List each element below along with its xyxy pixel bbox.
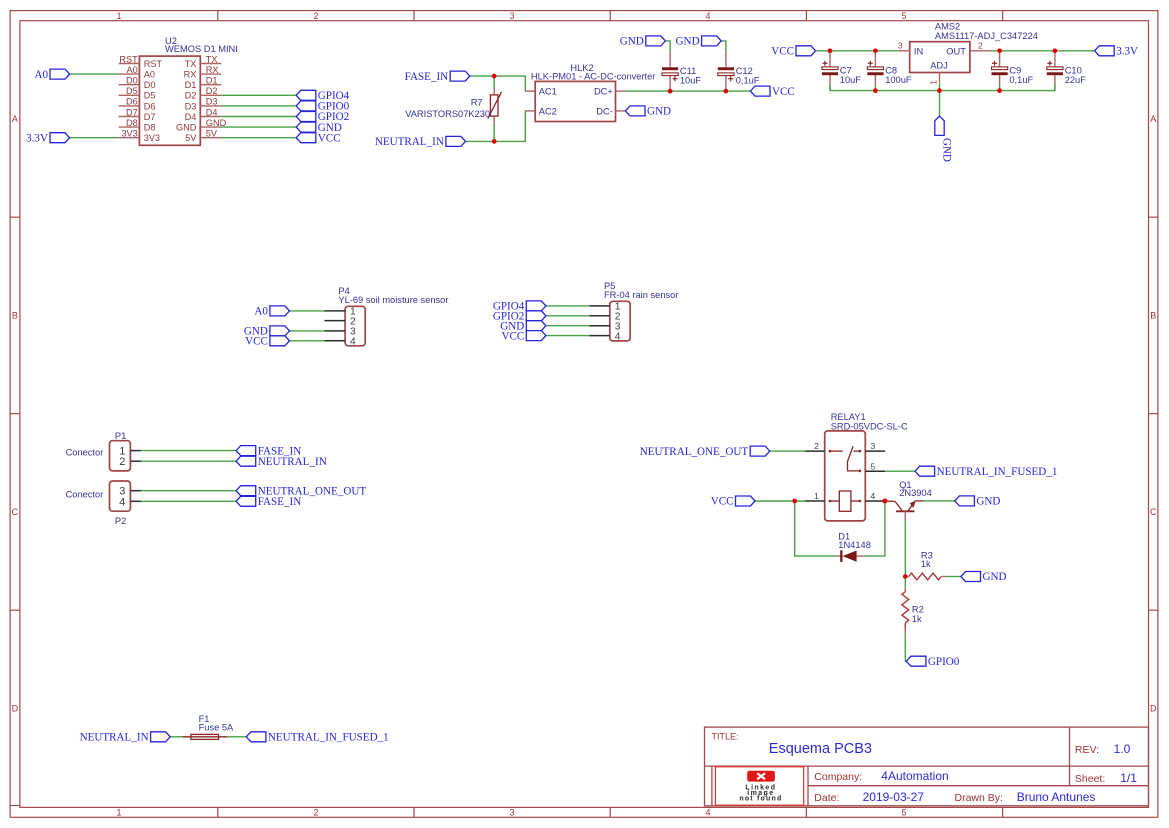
node junction ADJ/bus [937, 88, 942, 93]
P4 pin 4 [324, 337, 356, 348]
wire Q1 base down [904, 521, 906, 577]
svg-text:VARISTORS07K230: VARISTORS07K230 [405, 109, 490, 119]
svg-text:A: A [1150, 114, 1156, 124]
wire ADJ to bus [939, 82, 941, 90]
svg-text:TX: TX [206, 54, 218, 64]
net label NEUTRAL_ONE_OUT (relay) [640, 446, 770, 458]
svg-text:0,1uF: 0,1uF [736, 76, 760, 86]
node junction C8 bottom [873, 88, 878, 93]
svg-text:VCC: VCC [711, 496, 734, 508]
wire R3 to GND [946, 576, 961, 578]
RELAY1 coil [829, 491, 862, 511]
svg-text:1.0: 1.0 [1114, 742, 1131, 756]
net label VCC (AMS input) [771, 46, 815, 58]
C7 pin stubs [829, 51, 831, 91]
svg-text:2: 2 [119, 456, 125, 468]
svg-text:10uF: 10uF [840, 75, 862, 85]
svg-text:DC+: DC+ [594, 87, 613, 97]
svg-text:D1: D1 [185, 80, 197, 90]
svg-text:4: 4 [705, 11, 710, 21]
node junction C11/DC+ [668, 89, 673, 94]
svg-text:5V: 5V [185, 133, 197, 143]
svg-text:AMS2: AMS2 [935, 21, 960, 31]
svg-text:C: C [1150, 507, 1157, 517]
wire P1.2 to NEUTRAL_IN [141, 460, 236, 462]
svg-text:Bruno Antunes: Bruno Antunes [1017, 790, 1096, 804]
wire U2 to GPIO2 [221, 116, 296, 118]
net label GND (AMS, rotated) [935, 116, 953, 162]
svg-text:Esquema PCB3: Esquema PCB3 [769, 741, 872, 757]
svg-text:OUT: OUT [946, 46, 966, 56]
svg-text:GND: GND [176, 123, 197, 133]
wire Q1 emitter to GND [924, 500, 955, 502]
net label GND (Q1 emitter) [955, 496, 1001, 508]
net label VCC (P5) [501, 330, 545, 342]
wire U2 to GND [221, 126, 296, 128]
svg-text:AC1: AC1 [539, 87, 557, 97]
frame column numbers bottom [116, 808, 906, 818]
svg-text:2019-03-27: 2019-03-27 [863, 790, 925, 804]
frame column numbers top [116, 11, 906, 21]
U2 pin TX (right) [185, 54, 221, 69]
node junction base/R3 [903, 574, 908, 579]
U2 pin 5V (right) [185, 129, 221, 144]
svg-text:NEUTRAL_ONE_OUT: NEUTRAL_ONE_OUT [640, 446, 749, 458]
svg-text:NEUTRAL_IN: NEUTRAL_IN [258, 456, 327, 468]
node junction C9 bottom [997, 88, 1002, 93]
net label VCC (U2 right) [296, 132, 340, 144]
U2 pin D7 (left) [119, 107, 156, 122]
svg-text:3.3V: 3.3V [1116, 46, 1138, 58]
U2 pin D1 (right) [185, 76, 221, 91]
svg-text:TX: TX [185, 59, 197, 69]
P4 pin 2 [324, 316, 356, 327]
svg-text:1: 1 [116, 808, 121, 818]
AMS2 pin 2 OUT [946, 41, 991, 57]
svg-text:Date:: Date: [814, 792, 839, 804]
wire VCC junction down to D1 [795, 501, 838, 556]
wire FASE_IN to AC1 [470, 76, 526, 91]
svg-text:A0: A0 [144, 70, 155, 80]
capacitor C12 [718, 67, 734, 81]
U2 pin D5 (left) [119, 86, 156, 101]
svg-text:D0: D0 [126, 76, 138, 86]
wire NEUTRAL_IN to F1 [170, 736, 182, 738]
wire NEUTRAL_IN to AC2 [466, 111, 526, 141]
svg-text:Drawn By:: Drawn By: [955, 792, 1003, 804]
linked image broken icon [747, 771, 775, 782]
relay RELAY1 body [825, 431, 866, 521]
svg-text:3: 3 [509, 808, 514, 818]
svg-text:5: 5 [901, 11, 906, 21]
svg-text:1N4148: 1N4148 [838, 540, 871, 550]
svg-text:2: 2 [814, 441, 819, 451]
wire RELAY1.5 to NEUTRAL_IN_FUSED_1 [885, 470, 915, 472]
svg-text:P2: P2 [115, 516, 126, 526]
svg-text:4: 4 [119, 496, 125, 508]
title block dividers [705, 727, 1149, 806]
net label NEUTRAL_IN_FUSED_1 (fuse) [246, 732, 388, 744]
capacitor C9 [992, 61, 1008, 75]
P1 pin 1 [119, 446, 141, 458]
svg-text:Company:: Company: [814, 771, 862, 783]
RELAY1 pin 1 [805, 491, 825, 501]
svg-text:FR-04 rain sensor: FR-04 rain sensor [604, 290, 678, 300]
U2 pin D2 (right) [185, 86, 221, 101]
svg-text:1/1: 1/1 [1120, 771, 1137, 785]
node junction RELAY1.4/Q1 [883, 499, 888, 504]
wire P2.3 to NEUTRAL_ONE_OUT [141, 490, 236, 492]
U2 pin GND (right) [176, 118, 227, 133]
P1 pin 2 [119, 456, 141, 468]
svg-text:4: 4 [615, 331, 621, 342]
svg-text:Fuse 5A: Fuse 5A [199, 723, 234, 733]
RELAY1 switch contacts [829, 446, 862, 472]
wire varistor branch [493, 76, 495, 88]
svg-text:D7: D7 [144, 112, 156, 122]
node junction NEUTRAL_IN/R7 [492, 139, 497, 144]
svg-text:REV:: REV: [1075, 744, 1099, 756]
svg-text:5: 5 [871, 461, 876, 471]
svg-text:GPIO0: GPIO0 [928, 656, 960, 668]
svg-text:VCC: VCC [501, 330, 524, 342]
connector P2 body [110, 481, 131, 511]
svg-text:FASE_IN: FASE_IN [258, 496, 302, 508]
svg-text:A0: A0 [34, 69, 48, 81]
wire VCC to P5 [546, 335, 589, 337]
svg-text:VCC: VCC [318, 132, 341, 144]
svg-text:2N3904: 2N3904 [899, 488, 932, 498]
svg-text:4: 4 [350, 337, 356, 348]
svg-text:Sheet:: Sheet: [1075, 773, 1105, 785]
svg-text:D5: D5 [126, 86, 138, 96]
varistor R7 [488, 88, 502, 123]
svg-text:D: D [1150, 704, 1157, 714]
wire GPIO2 to P5 [546, 315, 589, 317]
svg-text:D6: D6 [126, 97, 138, 107]
net label NEUTRAL_ONE_OUT (P2) [236, 485, 366, 497]
wire 3.3V to U2 3V3 [70, 137, 119, 139]
C9 pin stubs [999, 51, 1001, 91]
junction dots layer [492, 49, 1057, 579]
net label NEUTRAL_IN (P1) [236, 456, 327, 468]
svg-text:Conector: Conector [66, 489, 104, 499]
wire U2 to GPIO0 [221, 105, 296, 107]
RELAY1 pin 5 [865, 461, 885, 471]
svg-text:3.3V: 3.3V [26, 132, 48, 144]
svg-text:D7: D7 [126, 107, 138, 117]
node junction VCC/D1 [792, 499, 797, 504]
U2 pin D8 (left) [119, 118, 156, 133]
net label GPIO4 (P5) [493, 301, 546, 313]
wire U2 to GPIO4 [221, 94, 296, 96]
U2 pin D0 (left) [119, 76, 156, 91]
net label FASE_IN (P1) [236, 445, 301, 457]
svg-text:RST: RST [119, 54, 138, 64]
svg-text:GND: GND [647, 106, 671, 118]
U2 pin RST (left) [119, 54, 163, 69]
P5 pin 4 [589, 331, 621, 342]
net label FASE_IN (P2) [236, 496, 301, 508]
svg-text:4: 4 [705, 808, 710, 818]
svg-text:GND: GND [983, 571, 1007, 583]
P5 pin 2 [589, 312, 621, 323]
wire VCC to AMS2 IN [816, 50, 899, 52]
C11 pin stubs [669, 51, 671, 91]
svg-text:100uF: 100uF [885, 75, 912, 85]
wire A0 to U2 [70, 73, 119, 75]
svg-text:P1: P1 [115, 431, 126, 441]
svg-text:D6: D6 [144, 101, 156, 111]
net label GPIO4 (U2 right) [296, 90, 349, 102]
svg-text:HLK-PM01 - AC-DC-converter: HLK-PM01 - AC-DC-converter [531, 72, 656, 82]
svg-text:TITLE:: TITLE: [712, 731, 739, 741]
svg-text:VCC: VCC [772, 86, 795, 98]
net label 3.3V (left) [26, 132, 69, 144]
svg-text:5: 5 [901, 808, 906, 818]
P4 pin 1 [324, 307, 356, 318]
resistor R3 [905, 573, 946, 580]
linked image placeholder box [715, 767, 803, 805]
net label GPIO0 (U2 right) [296, 101, 349, 113]
wire A0 to P4.1 [290, 310, 325, 312]
svg-text:2: 2 [313, 11, 318, 21]
net label GND (HLK DC-) [625, 106, 671, 118]
title block outline [705, 727, 1149, 806]
linked image text [739, 784, 782, 802]
node junction C7 top [828, 49, 833, 54]
svg-text:5V: 5V [206, 129, 218, 139]
svg-text:1: 1 [116, 11, 121, 21]
RELAY1 pin 3 [865, 441, 885, 451]
net label GND (R3) [961, 571, 1007, 583]
wire ground bus below AMS2 [830, 85, 1055, 91]
svg-text:R7: R7 [471, 97, 483, 107]
AMS2 pin 1 ADJ [928, 61, 947, 85]
svg-text:ADJ: ADJ [930, 61, 948, 71]
svg-text:2: 2 [313, 808, 318, 818]
wire VCC to P4.4 [290, 340, 325, 342]
svg-text:AC2: AC2 [539, 106, 557, 116]
svg-text:YL-69 soil moisture sensor: YL-69 soil moisture sensor [338, 295, 448, 305]
svg-text:GND: GND [620, 36, 644, 48]
net label GPIO2 (U2 right) [296, 111, 349, 123]
net label GPIO2 (P5) [493, 311, 546, 323]
net label NEUTRAL_IN_FUSED_1 (relay) [915, 466, 1057, 478]
svg-text:4Automation: 4Automation [881, 769, 948, 783]
svg-text:VCC: VCC [771, 46, 794, 58]
P4 pin 3 [324, 327, 356, 338]
wire P2.4 to FASE_IN [141, 500, 236, 502]
P5 pin 3 [589, 321, 621, 332]
node junction C9 top [997, 49, 1002, 54]
connector P5 body [610, 301, 630, 341]
frame row ticks [10, 217, 1158, 610]
U2 pin D3 (right) [185, 97, 221, 112]
net label FASE_IN (HLK input) [405, 71, 470, 83]
svg-text:4: 4 [871, 491, 876, 501]
C12 pin stubs [725, 51, 727, 91]
svg-text:AMS1117-ADJ_C347224: AMS1117-ADJ_C347224 [935, 31, 1038, 41]
svg-text:1k: 1k [912, 614, 922, 624]
net label GND (C11) [620, 36, 666, 48]
wire NEUTRAL_ONE_OUT to RELAY1.2 [770, 450, 805, 452]
svg-text:D2: D2 [185, 91, 197, 101]
svg-text:0,1uF: 0,1uF [1009, 75, 1033, 85]
U2 pin 3V3 (left) [119, 129, 160, 144]
svg-text:B: B [1150, 311, 1156, 321]
U2 pin D4 (right) [185, 107, 221, 122]
net label NEUTRAL_IN (fuse) [80, 732, 171, 744]
AMS2 pin 3 IN [898, 41, 923, 57]
net label A0 (P4) [254, 306, 289, 318]
RELAY1 pin 2 [805, 441, 825, 451]
svg-text:A0: A0 [254, 306, 268, 318]
net label VCC (relay) [711, 496, 755, 508]
svg-text:B: B [12, 311, 18, 321]
svg-text:D3: D3 [185, 101, 197, 111]
P2 pin 4 [119, 496, 141, 508]
net label GND (P5) [500, 320, 546, 332]
diode D1 1N4148 [838, 550, 865, 562]
wire GPIO4 to P5 [546, 305, 589, 307]
wire bus to GND flag [939, 91, 941, 117]
net label GND (C12) [676, 36, 722, 48]
svg-text:3: 3 [509, 11, 514, 21]
net label A0 (left) [34, 69, 69, 81]
frame row letters left [12, 114, 19, 714]
svg-text:D8: D8 [144, 123, 156, 133]
svg-text:FASE_IN: FASE_IN [405, 71, 449, 83]
svg-text:3V3: 3V3 [121, 129, 137, 139]
svg-text:22uF: 22uF [1065, 75, 1087, 85]
U2 pin A0 (left) [119, 65, 155, 80]
U2 pin RX (right) [184, 65, 221, 80]
wire D1 to RELAY1.4 [864, 501, 885, 556]
capacitor C8 [867, 61, 883, 75]
svg-text:Conector: Conector [66, 447, 104, 457]
svg-text:D8: D8 [126, 118, 138, 128]
wire R2 to GPIO0 [905, 633, 906, 661]
wire P1.1 to FASE_IN [141, 450, 236, 452]
RELAY1 pin 4 [865, 491, 885, 501]
HLK2 pin DC+ [594, 87, 625, 97]
node junction FASE_IN/R7 [492, 74, 497, 79]
svg-text:D5: D5 [144, 91, 156, 101]
resistor R2 [902, 577, 909, 634]
net label NEUTRAL_IN (HLK input) [375, 136, 466, 148]
svg-text:IN: IN [914, 46, 923, 56]
svg-text:WEMOS D1 MINI: WEMOS D1 MINI [165, 44, 238, 54]
HLK2 pin AC2 [525, 106, 557, 116]
net label GND (U2 right) [296, 122, 342, 134]
svg-text:10uF: 10uF [680, 76, 702, 86]
svg-text:GND: GND [940, 138, 952, 162]
svg-text:NEUTRAL_IN: NEUTRAL_IN [80, 732, 149, 744]
svg-text:NEUTRAL_IN: NEUTRAL_IN [375, 136, 444, 148]
wire GND to C12 [721, 41, 726, 52]
svg-text:NEUTRAL_IN_FUSED_1: NEUTRAL_IN_FUSED_1 [937, 466, 1058, 478]
svg-text:SRD-05VDC-SL-C: SRD-05VDC-SL-C [831, 421, 908, 431]
connector P1 body [110, 441, 131, 471]
U2 pin D6 (left) [119, 97, 156, 112]
wire AMS2 OUT to 3.3V [991, 50, 1095, 52]
svg-text:GND: GND [676, 36, 700, 48]
svg-text:not found: not found [739, 796, 782, 803]
svg-text:GND: GND [976, 496, 1000, 508]
HLK2 pin DC- [596, 106, 625, 116]
C10 pin stubs [1054, 51, 1056, 91]
net label GPIO0 [906, 656, 959, 668]
svg-text:DC-: DC- [596, 106, 613, 116]
C8 pin stubs [874, 51, 876, 91]
svg-text:D4: D4 [206, 107, 218, 117]
svg-text:VCC: VCC [245, 336, 268, 348]
net label VCC (DC+ output) [750, 86, 794, 98]
wire F1 to NEUTRAL_IN_FUSED_1 [227, 736, 246, 738]
svg-text:D2: D2 [206, 86, 218, 96]
svg-text:RX: RX [206, 65, 219, 75]
wire VCC to RELAY1.1 [755, 500, 805, 502]
connector P4 body [345, 306, 365, 346]
svg-text:D1: D1 [206, 76, 218, 86]
transistor Q1 2N3904 [885, 501, 924, 521]
wire DC+ rail to VCC [625, 90, 750, 92]
power module HLK2 body [535, 81, 615, 121]
capacitor C7 [822, 61, 838, 75]
wire GND to P5 [546, 325, 589, 327]
svg-text:RST: RST [144, 59, 163, 69]
capacitor C11 [662, 67, 678, 81]
svg-text:1: 1 [928, 80, 938, 85]
wire GND to C11 [665, 41, 670, 52]
svg-text:D: D [12, 704, 19, 714]
svg-text:1k: 1k [921, 559, 931, 569]
svg-text:2: 2 [978, 41, 983, 51]
node junction C10 top [1053, 49, 1058, 54]
svg-text:3: 3 [898, 41, 903, 51]
net label VCC (P4) [245, 336, 289, 348]
svg-text:3V3: 3V3 [144, 133, 160, 143]
net label 3.3V (AMS output) [1095, 46, 1138, 58]
svg-text:1: 1 [814, 491, 819, 501]
HLK2 pin AC1 [525, 87, 557, 97]
fuse F1 [183, 734, 228, 739]
svg-text:A0: A0 [127, 65, 138, 75]
svg-text:3: 3 [871, 441, 876, 451]
svg-text:D4: D4 [185, 112, 197, 122]
P5 pin 1 [589, 302, 621, 313]
IC U2 WEMOS D1 MINI body [139, 56, 200, 145]
wire U2 to VCC [221, 137, 296, 139]
svg-text:NEUTRAL_IN_FUSED_1: NEUTRAL_IN_FUSED_1 [268, 732, 389, 744]
net label GND (P4) [244, 326, 290, 338]
capacitor C10 [1047, 61, 1063, 75]
regulator AMS2 body [910, 42, 970, 73]
svg-text:C: C [12, 507, 19, 517]
svg-text:D0: D0 [144, 80, 156, 90]
P2 pin 3 [119, 486, 141, 498]
node junction C12/DC+ [724, 89, 729, 94]
node junction C8 top [873, 49, 878, 54]
svg-text:A: A [12, 114, 18, 124]
frame row letters right [1150, 114, 1157, 714]
svg-text:D3: D3 [206, 97, 218, 107]
svg-text:RX: RX [184, 70, 197, 80]
wire GND to P4.3 [290, 330, 325, 332]
